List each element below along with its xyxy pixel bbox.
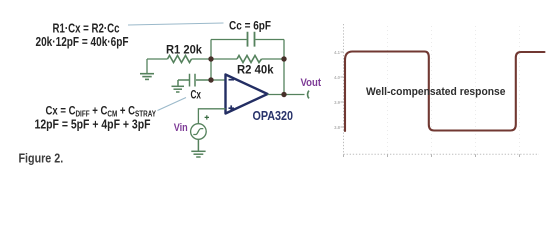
resistor R1 — [168, 56, 192, 63]
wire R1 to node — [192, 58, 212, 60]
node junction A — [208, 56, 213, 61]
svg-text:3.9: 3.9 — [334, 100, 340, 105]
callout line to Cx — [158, 98, 187, 111]
svg-text:Vout: Vout — [301, 77, 322, 89]
svg-text:3.8: 3.8 — [334, 125, 340, 130]
source waveform glyph — [193, 129, 203, 135]
wire R2 to right vertical — [262, 58, 285, 60]
svg-text:Cc = 6pF: Cc = 6pF — [229, 19, 271, 33]
node junction C — [281, 56, 286, 61]
scope gridline vertical 2 — [431, 26, 433, 154]
svg-text:R1·Cx = R2·Cc: R1·Cx = R2·Cc — [53, 22, 120, 36]
svg-text:Well-compensated response: Well-compensated response — [366, 86, 506, 98]
wire node vertical — [210, 40, 212, 81]
wire node to R2 — [211, 58, 237, 60]
scope vertical tick labels — [334, 50, 340, 130]
svg-text:12pF = 5pF + 4pF + 3pF: 12pF = 5pF + 4pF + 3pF — [35, 117, 151, 131]
pin plus — [229, 105, 235, 111]
resistor R2 — [237, 56, 262, 63]
scope vertical axis — [343, 24, 345, 154]
svg-text:R2 40k: R2 40k — [237, 63, 274, 77]
capacitor Cx — [178, 74, 211, 87]
waveform Vout trace — [345, 52, 545, 132]
wire plus input — [198, 109, 225, 124]
op-amp U1 OPA320 — [226, 75, 268, 114]
ground GND2 (Cx) — [172, 86, 185, 92]
svg-text:Cx: Cx — [191, 88, 202, 102]
scope gridline vertical 3 — [475, 26, 477, 154]
node junction B — [208, 77, 213, 82]
source Vin — [191, 124, 207, 140]
ground GND1 (left) — [140, 59, 154, 79]
polarity plus mark — [205, 115, 209, 119]
wire node to minus input — [211, 79, 226, 81]
svg-text:Vin: Vin — [174, 122, 188, 134]
wire right vertical — [283, 40, 285, 95]
pin minus — [229, 79, 235, 81]
svg-text:OPA320: OPA320 — [253, 108, 294, 123]
svg-text:Cx = CDIFF + CCM + CSTRAY: Cx = CDIFF + CCM + CSTRAY — [46, 103, 157, 118]
callout line to Cc — [128, 23, 224, 25]
wire Cc top rail — [211, 39, 284, 41]
svg-text:R1 20k: R1 20k — [166, 43, 202, 57]
scope gridline vertical 1 — [387, 26, 389, 154]
svg-text:20k·12pF = 40k·6pF: 20k·12pF = 40k·6pF — [36, 35, 129, 49]
svg-text:Figure 2.: Figure 2. — [19, 152, 64, 166]
ground GND3 (Vin) — [191, 139, 205, 157]
svg-text:4.1: 4.1 — [334, 50, 340, 55]
wire left to R1 — [147, 58, 168, 60]
capacitor Cc — [248, 32, 255, 47]
scope horizontal axis — [344, 153, 540, 155]
scope vertical axis ticks — [341, 52, 344, 127]
connector Vout — [308, 91, 309, 99]
scope horizontal axis ticks — [344, 154, 520, 157]
wire output — [268, 94, 305, 96]
scope gridline vertical 4 — [519, 26, 521, 154]
svg-text:4.0: 4.0 — [334, 75, 340, 80]
node junction D — [281, 92, 286, 97]
